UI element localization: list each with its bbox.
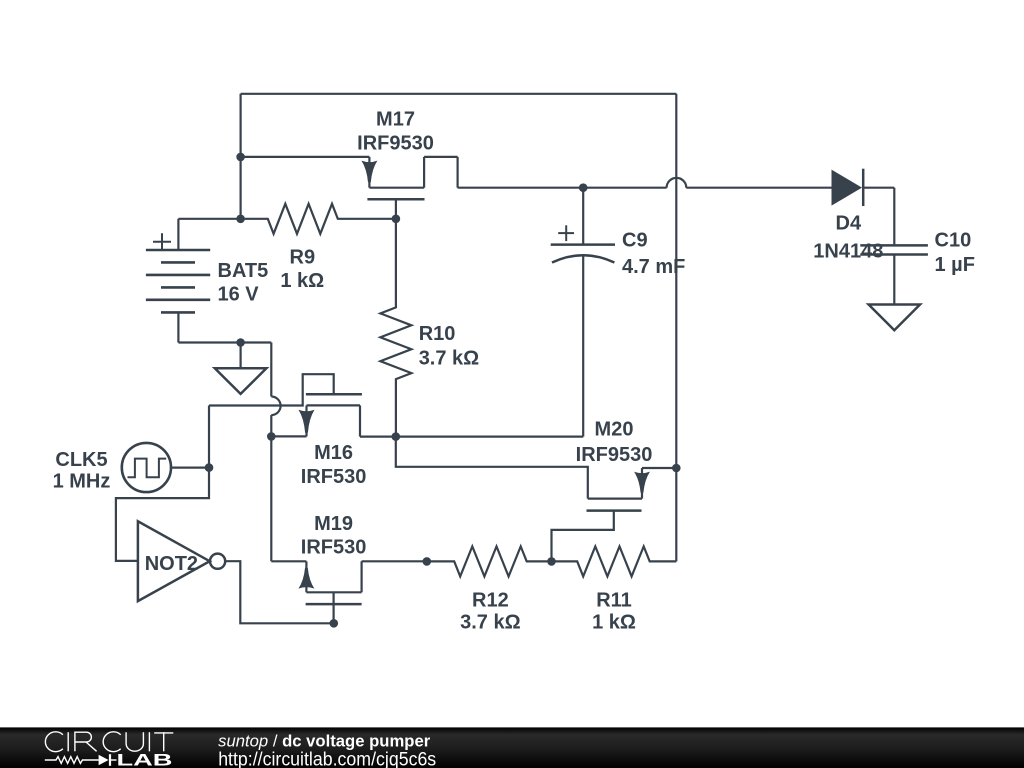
- capacitor C9: [551, 188, 615, 437]
- svg-text:NOT2: NOT2: [145, 553, 198, 575]
- wire hop over vertical rail: [667, 178, 687, 188]
- svg-text:1 µF: 1 µF: [935, 254, 975, 276]
- clock source CLK5: [122, 443, 209, 492]
- footer bar: [0, 727, 1024, 768]
- wire CLK to M16 gate riser: [208, 406, 210, 468]
- transistor M16: [209, 374, 396, 436]
- label R10: [419, 323, 456, 345]
- svg-text:M19: M19: [314, 513, 353, 535]
- label BAT5: [218, 260, 269, 282]
- svg-text:LAB: LAB: [117, 752, 173, 768]
- label R12 value: [460, 611, 521, 633]
- label M16 type: [301, 466, 367, 488]
- svg-text:C9: C9: [622, 229, 648, 251]
- battery BAT5: [146, 219, 271, 343]
- svg-text:1 kΩ: 1 kΩ: [280, 270, 324, 292]
- junction node M17 source: [236, 153, 245, 162]
- label C10: [935, 229, 972, 251]
- svg-text:M17: M17: [376, 109, 415, 131]
- wire rail to diode: [686, 187, 831, 189]
- junction node M20 source rail: [672, 464, 681, 473]
- junction node M16 source: [267, 432, 276, 441]
- label D4 type: [813, 240, 883, 262]
- svg-text:suntop / dc voltage pumper: suntop / dc voltage pumper: [218, 732, 431, 750]
- svg-text:3.7 kΩ: 3.7 kΩ: [460, 611, 521, 633]
- wire to M16 source: [270, 415, 272, 436]
- svg-text:1N4148: 1N4148: [813, 240, 883, 262]
- wire left vertical (top): [240, 94, 242, 219]
- svg-text:R10: R10: [419, 323, 456, 345]
- svg-text:M20: M20: [595, 419, 634, 441]
- svg-text:CLK5: CLK5: [55, 449, 107, 471]
- label R11 value: [592, 611, 636, 633]
- wire hop over clock wire: [271, 397, 280, 416]
- label CLK5: [55, 449, 107, 471]
- label R11: [596, 589, 632, 611]
- resistor R11: [552, 546, 677, 576]
- diode D4: [832, 169, 894, 246]
- wire main output rail: [458, 187, 667, 189]
- label R9 value: [280, 270, 324, 292]
- transistor M20: [396, 437, 677, 562]
- svg-text:16 V: 16 V: [218, 284, 260, 306]
- junction node M19 gate: [330, 619, 339, 628]
- junction node CLK5 output: [205, 463, 214, 472]
- label R9: [290, 246, 316, 268]
- svg-text:http://circuitlab.com/cjq5c6s: http://circuitlab.com/cjq5c6s: [218, 750, 436, 768]
- label C10 value: [935, 254, 975, 276]
- wire battery bottom to M16: [270, 343, 272, 397]
- svg-text:R12: R12: [472, 589, 509, 611]
- capacitor C10: [860, 245, 928, 304]
- wire mid rail to C9: [396, 436, 583, 438]
- label M16: [314, 442, 353, 464]
- resistor R10: [380, 219, 411, 437]
- label M19: [314, 513, 353, 535]
- svg-text:IRF9530: IRF9530: [576, 444, 653, 466]
- ground (battery): [215, 343, 267, 394]
- label M17: [376, 109, 415, 131]
- wire NOT2 output to M19 gate: [225, 561, 334, 623]
- svg-text:M16: M16: [314, 442, 353, 464]
- footer logo glyph: [45, 754, 117, 766]
- wire right vertical rail: [675, 94, 677, 562]
- junction node battery ground: [236, 338, 245, 347]
- ground (C10): [869, 305, 920, 331]
- transistor M19: [271, 561, 427, 623]
- svg-text:IRF9530: IRF9530: [357, 133, 434, 155]
- svg-text:3.7 kΩ: 3.7 kΩ: [419, 348, 480, 370]
- label M19 type: [301, 537, 367, 559]
- svg-text:1 MHz: 1 MHz: [53, 470, 111, 492]
- label 16 V: [218, 284, 260, 306]
- inverter NOT2: [138, 521, 225, 601]
- junction node R9 right / M17 gate: [392, 215, 401, 224]
- footer title: [218, 732, 431, 750]
- label NOT2: [145, 553, 198, 575]
- junction node R12 right / M20 gate: [547, 557, 556, 566]
- svg-text:IRF530: IRF530: [301, 537, 367, 559]
- label R12: [472, 589, 509, 611]
- footer logo CIRCUIT: [45, 732, 173, 752]
- junction node R10 bottom: [392, 432, 401, 441]
- svg-text:IRF530: IRF530: [301, 466, 367, 488]
- footer url: [218, 750, 436, 768]
- label C9: [622, 229, 648, 251]
- label CLK5 value: [53, 470, 111, 492]
- svg-text:R11: R11: [596, 589, 632, 611]
- svg-text:C10: C10: [935, 229, 972, 251]
- label M20: [595, 419, 634, 441]
- wire top rail: [241, 93, 677, 95]
- junction node C9 top: [579, 183, 588, 192]
- label C9 value: [622, 256, 685, 278]
- svg-text:R9: R9: [290, 246, 316, 268]
- footer logo LAB: [117, 752, 173, 768]
- junction node R9 left: [236, 215, 245, 224]
- label R10 value: [419, 348, 480, 370]
- wire CLK to NOT2 input: [116, 468, 209, 561]
- svg-text:BAT5: BAT5: [218, 260, 269, 282]
- label D4: [836, 213, 862, 235]
- label M20 type: [576, 444, 653, 466]
- svg-text:1 kΩ: 1 kΩ: [592, 611, 636, 633]
- resistor R9: [241, 204, 396, 234]
- transistor M17: [241, 157, 458, 219]
- svg-text:4.7 mF: 4.7 mF: [622, 256, 685, 278]
- wire M16 to M19: [270, 436, 272, 561]
- resistor R12: [427, 546, 552, 576]
- label M17 type: [357, 133, 434, 155]
- junction node R12 left: [423, 557, 432, 566]
- svg-text:D4: D4: [836, 213, 862, 235]
